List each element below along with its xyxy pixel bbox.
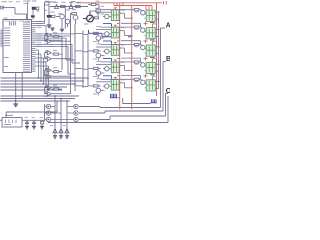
svg-text:A: A: [166, 23, 170, 30]
svg-text:B: B: [166, 56, 170, 63]
